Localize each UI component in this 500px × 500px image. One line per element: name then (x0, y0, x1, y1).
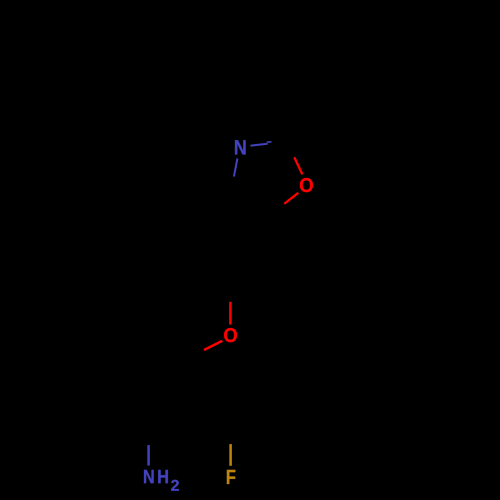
bond C2-O1 oxygen half (red, up from O toward spiro C2) (294, 157, 302, 174)
atom label N1 (oxazoline ring nitrogen) (235, 140, 246, 154)
bond C8-O2 oxygen half (red, vertical above ether O) (229, 302, 232, 325)
atom label N2: letter H of NH2 (158, 470, 168, 483)
atom label N2: letter N of NH2 (aniline nitrogen) (144, 470, 154, 483)
atom label O1 (oxazoline ring oxygen) (300, 178, 313, 192)
bond O2-aryl oxygen half (red, down-left from ether O) (204, 341, 222, 350)
atom label N2: subscript 2 of NH2 (171, 480, 179, 491)
bond O1-C7a oxygen half (red, down-left from O) (284, 193, 298, 204)
atom label O2 (aryl ether oxygen) (224, 328, 237, 342)
bond N1-C4 nitrogen half (blue, down-left from N) (234, 159, 238, 177)
bond N1=C2 main line, nitrogen half (blue) (251, 144, 268, 146)
bond C-N2 nitrogen half (blue, vertical above NH2) (147, 445, 150, 466)
bond N1=C2 inner double-bond line, nitrogen half (blue tick) (267, 141, 272, 143)
atom label F1 (fluorine) (227, 470, 235, 484)
bond C-F1 fluorine half (goldenrod, vertical above F) (229, 444, 232, 466)
